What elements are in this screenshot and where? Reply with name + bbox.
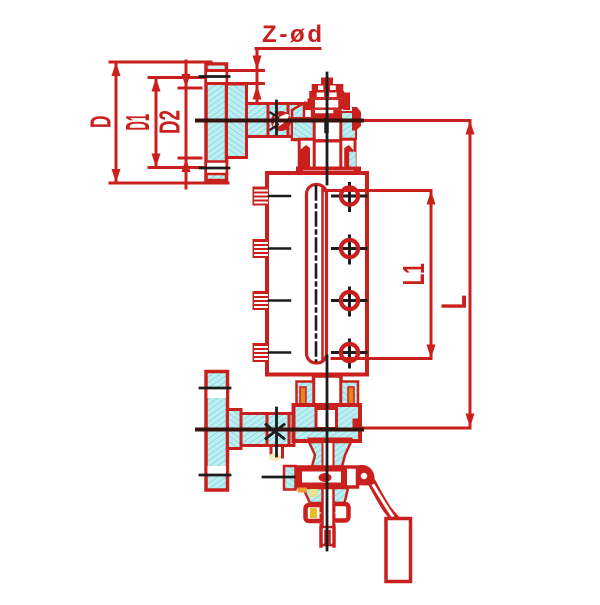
bolt hole lower hidden line top	[207, 160, 227, 163]
top valve gland slot right	[328, 100, 338, 108]
Z-od leader down arrow	[253, 56, 262, 71]
drain hook left	[306, 505, 319, 521]
bolt hole hidden line bottom	[208, 82, 264, 85]
bottom joint bolt mark lower	[266, 425, 284, 439]
drain pipe right wall dashed	[333, 505, 336, 528]
dimension L1 top arrow	[427, 191, 436, 205]
top union joint centerline	[275, 101, 278, 134]
drain cock spindle bottom bar	[297, 483, 342, 488]
body bolt circle 3	[333, 288, 367, 315]
dimension L1 top extension line inner segment	[325, 189, 368, 192]
sight glass inner edge	[321, 189, 324, 359]
drain pipe left wall	[319, 528, 323, 546]
top union ball	[271, 111, 291, 131]
dimension D top arrow	[112, 62, 121, 76]
dimension D1 line	[155, 78, 158, 168]
top union ball seat	[274, 114, 279, 119]
sight glass centerline	[315, 187, 318, 362]
dimension L top extension line	[360, 119, 470, 122]
dimension L1 line	[430, 191, 433, 359]
top valve bore	[314, 118, 341, 141]
drain pipe inner left	[324, 531, 327, 545]
drain cock spindle top bar	[297, 467, 342, 472]
lower valve bore	[316, 409, 337, 429]
dimension D1 bottom extension line	[149, 166, 214, 169]
lower valve drain port right	[281, 446, 284, 457]
Z-od leader vertical line	[256, 49, 259, 108]
drain cock left gland bar	[296, 466, 303, 488]
top valve handwheel slot right	[330, 86, 336, 91]
top valve stem tick	[324, 120, 329, 131]
top flange plate	[206, 64, 227, 181]
lower valve right gland	[341, 382, 358, 407]
top valve left wing	[304, 102, 312, 110]
bottom pipe union flange right	[288, 414, 291, 446]
dimension D2 line	[185, 61, 188, 188]
dimension L line	[469, 121, 472, 428]
drain cock lever	[372, 482, 395, 518]
dimension D bottom extension line	[110, 182, 228, 185]
body bolt circle 1	[333, 184, 367, 211]
dimension D2 bottom arrow	[182, 158, 191, 172]
drain cock axis centerline	[263, 476, 294, 479]
drain cock lever boss hole	[361, 473, 367, 479]
top pipe union flange right	[287, 104, 290, 137]
top joint bolt mark upper	[271, 113, 279, 118]
top pipe centerline	[197, 119, 362, 123]
gauge body	[267, 173, 367, 375]
top valve packing nut slot	[315, 110, 333, 113]
top valve right seat wedge	[344, 145, 353, 168]
lower valve bottom band	[308, 438, 353, 443]
bottom pipe	[241, 414, 294, 446]
drain cock upper bore	[323, 442, 334, 467]
drain cock lever boss	[356, 465, 375, 486]
drain cock lever core	[374, 486, 393, 517]
main centerline middle	[326, 356, 329, 550]
top joint bolt mark lower	[271, 125, 279, 130]
lower valve drain port blob	[269, 453, 281, 461]
drain cock right gland bar	[341, 467, 347, 487]
dimension L1 bottom arrow	[427, 345, 436, 359]
top valve stem nut bar	[309, 91, 344, 98]
dimension L bottom extension line	[362, 427, 470, 430]
body stud 4	[253, 343, 291, 362]
body bolt circle 4	[333, 340, 367, 367]
bottom flange plate	[206, 372, 228, 491]
top valve body hatch right	[341, 112, 356, 139]
lower valve seat block	[353, 419, 362, 430]
svg-text:L: L	[435, 295, 474, 310]
dimension D line	[115, 62, 118, 183]
top flange bolt hole band upper	[207, 72, 226, 83]
main centerline top	[326, 73, 329, 184]
top valve bore bottom band	[314, 139, 341, 142]
svg-text:D: D	[86, 116, 118, 129]
dimension L1 bottom extension line inner segment	[332, 357, 368, 360]
drain pipe left wall dashed	[320, 505, 323, 528]
dimension D2 bottom extension line	[179, 157, 201, 160]
top valve outlet flange gasket	[303, 171, 354, 176]
dimension L1 bottom extension line	[332, 357, 431, 360]
top valve left seat wedge	[300, 145, 310, 170]
top valve right wing	[343, 93, 350, 111]
drain hook right	[337, 504, 349, 521]
bolt hole lower hidden line bottom	[207, 173, 227, 176]
lower valve neck	[314, 376, 342, 408]
top pipe union flange left	[267, 104, 270, 137]
bottom flange bolt hole gap lower	[208, 466, 227, 475]
top valve right leg hatch	[349, 152, 356, 169]
drain pipe inner right	[328, 531, 331, 545]
dimension D top extension line	[110, 61, 211, 64]
drain handle	[386, 519, 411, 582]
drain cock upper body	[309, 442, 351, 467]
drain cock spindle body	[296, 467, 358, 487]
top valve stem nut nub	[321, 78, 333, 85]
bottom flange bolt hole centerline upper	[200, 387, 230, 390]
lower valve left gland	[297, 382, 314, 407]
lower valve left gland packing	[300, 387, 306, 404]
drain lower body	[303, 488, 348, 503]
body bolt circle 2	[333, 236, 367, 263]
top valve gland slot left	[315, 100, 326, 108]
top valve stem nut slot left	[317, 93, 325, 98]
dimension D1 top arrow	[152, 78, 161, 92]
lower valve stem tick	[326, 415, 329, 425]
drain lower bore	[323, 488, 334, 527]
dimension D2 top extension line	[179, 87, 201, 90]
dimension L top arrow	[466, 121, 475, 135]
top flange bolt hole band lower	[207, 162, 226, 173]
bottom flange bolt hole centerline lower	[200, 474, 230, 477]
top valve body left	[292, 103, 304, 140]
lower valve body	[294, 405, 361, 441]
svg-text:Z-ød: Z-ød	[262, 21, 322, 48]
top valve body hatch left	[292, 118, 314, 139]
top valve packing nut	[311, 109, 342, 118]
top valve stem nut slot right	[329, 93, 337, 98]
bottom union joint centerline	[275, 408, 278, 456]
Z-od leader up arrow	[253, 85, 262, 100]
drain bore packing left	[310, 489, 318, 497]
bottom pipe centerline	[197, 428, 362, 432]
drain cock left cap	[284, 466, 296, 490]
top valve handwheel bar	[312, 84, 344, 91]
top valve gland flange	[308, 98, 347, 109]
top flange hub	[227, 84, 247, 158]
top valve left leg	[299, 139, 314, 170]
top valve right lug	[352, 107, 361, 131]
dimension D2 top arrow	[182, 74, 191, 88]
top pipe	[247, 104, 304, 137]
top flange bolt hole centerline upper	[200, 75, 229, 78]
bolt hole hidden line top	[208, 69, 264, 72]
sight glass slot	[307, 185, 327, 364]
drain pipe right wall	[332, 528, 336, 546]
drain cock plug	[319, 473, 332, 482]
body stud 3	[253, 291, 291, 310]
body stud 2	[253, 239, 291, 258]
bottom flange hub	[228, 410, 242, 449]
top valve outlet flange	[296, 167, 361, 177]
drain hook left packing	[310, 508, 317, 518]
dimension D bottom arrow	[112, 169, 121, 183]
top flange chamfer stripe	[209, 66, 224, 70]
bottom pipe union flange left	[266, 414, 269, 446]
svg-text:D2: D2	[154, 110, 186, 134]
top flange bolt hole centerline lower	[200, 167, 229, 170]
dimension D1 top extension line	[149, 76, 212, 79]
bottom flange bolt hole gap upper	[208, 389, 227, 398]
top valve handwheel slot left	[318, 86, 323, 91]
drain spindle packing left	[298, 488, 308, 493]
svg-text:D1: D1	[119, 114, 156, 131]
dimension D1 bottom arrow	[152, 154, 161, 168]
top union ball gasket	[271, 112, 290, 129]
Z-od leader horizontal line	[256, 47, 320, 50]
top valve right leg	[341, 139, 355, 168]
body stud 1	[253, 187, 291, 206]
svg-text:L1: L1	[396, 263, 431, 285]
dimension L1 top extension line	[325, 189, 431, 192]
lower valve right gland packing	[348, 387, 354, 404]
drain pipe mouth	[321, 544, 334, 547]
lower valve drain port left	[270, 446, 273, 457]
dimension L bottom arrow	[466, 414, 475, 428]
bottom joint bolt mark upper	[266, 425, 284, 439]
